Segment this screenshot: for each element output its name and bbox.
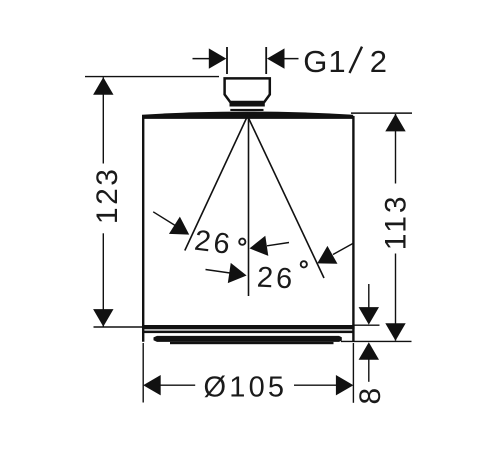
spray face disc lower (170, 342, 334, 344)
angle 26 upper arrow at spray line (153, 212, 194, 243)
svg-text:1: 1 (328, 44, 345, 79)
diameter 105 right extension line (352, 343, 354, 403)
G1/2 left extension line (226, 47, 228, 74)
svg-text:G: G (303, 44, 327, 79)
angle 26 lower arrow at centerline (206, 263, 249, 286)
connector lower ring (230, 109, 263, 111)
svg-text:Ø105: Ø105 (204, 371, 288, 403)
body left edge (142, 116, 144, 342)
G1/2 left arrow (193, 48, 227, 68)
123 bottom extension line (94, 326, 144, 328)
diameter 105 dimension line right part (294, 375, 353, 395)
connector collar bar (230, 103, 265, 107)
body bottom edge (142, 325, 355, 329)
svg-text:8: 8 (354, 388, 387, 405)
svg-text:26: 26 (193, 225, 235, 261)
123 top extension line (85, 76, 219, 78)
angle 26 lower arrow at spray line (312, 244, 353, 273)
diameter 105 left extension line (142, 343, 144, 403)
body top dome band (142, 112, 353, 119)
8 dimension reference line (352, 324, 379, 326)
right spray line (249, 118, 325, 278)
angle 26 lower degree symbol (301, 261, 307, 267)
G1/2 right arrow (267, 48, 299, 68)
123 dimension line (93, 77, 113, 326)
svg-text:2: 2 (370, 44, 387, 79)
centerline (248, 112, 250, 296)
angle 26 upper arrow at centerline (248, 236, 289, 259)
G1/2 right extension line (265, 47, 267, 74)
113 bottom extension line (341, 340, 412, 342)
svg-text:123: 123 (91, 167, 124, 225)
8 dimension upper arrow (359, 284, 379, 325)
bottom inner line (144, 331, 353, 334)
113 dimension line (385, 114, 405, 341)
8 dimension lower arrow (359, 342, 379, 382)
angle 26 upper degree symbol (239, 239, 245, 245)
left spray line (185, 118, 247, 251)
connector block (225, 78, 270, 102)
113 top extension line (351, 112, 412, 114)
diameter 105 dimension line left part (143, 375, 195, 395)
svg-text:113: 113 (380, 193, 413, 250)
spray face disc upper (154, 336, 342, 342)
svg-text:26: 26 (256, 262, 296, 296)
body right edge (352, 116, 354, 342)
G1/2 label (303, 44, 387, 79)
